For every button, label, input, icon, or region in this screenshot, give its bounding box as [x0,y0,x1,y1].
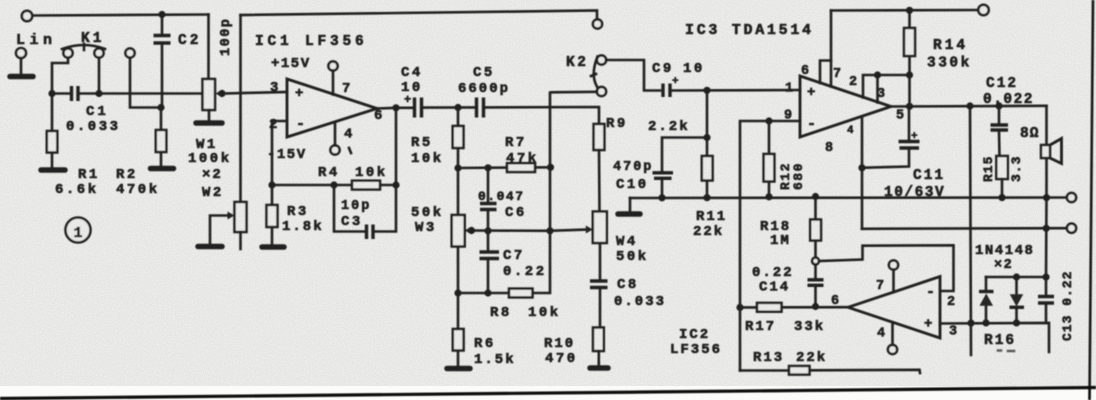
wire pin9 column [740,121,800,371]
potentiometer W4 50k [599,150,600,280]
wire K2 upper pin to C9 [606,60,660,91]
resistor R17 33k [757,303,782,312]
pin 4 supply terminal [330,145,339,154]
capacitor C13 0.22 [1038,297,1054,304]
node C1 left [48,90,55,97]
wire feedback vertical from output [395,108,398,186]
wire IC1 output [377,107,412,110]
wire W1 wiper to IC1 pin3 [222,92,287,94]
resistor R6 1.5k [457,296,460,365]
scan border right [1090,0,1094,400]
resistor R14 330k [908,10,911,106]
wire feedback loop to IC2 inverting input [819,245,954,291]
capacitor C11 10/63V [862,106,909,168]
wire K1 pin2 down [98,58,101,94]
wire R5/R7 row [458,166,551,169]
capacitor C8 0.033 [590,281,608,288]
capacitor C10 470p [662,138,707,198]
wire wiper row W3 to W4 [472,230,589,231]
resistor R5 10k [454,104,461,111]
capacitor C7 0.22 [487,231,490,293]
wire output sense column [970,106,971,355]
resistor R9 2.2k [594,124,605,150]
wire IC3 output row [891,105,1047,108]
pin 4 terminal IC2 [888,345,897,354]
terminal output 1 [1067,193,1076,202]
wire top rail from Lin to W1 [33,15,209,16]
wire IC3 pins 2-3 bootstrap loop [863,75,878,103]
wire IC1 pin2 to feedback node [272,121,287,185]
resistor R18 1M [812,193,819,200]
potentiometer W1 100k [207,15,210,80]
resistor R8 10k [509,289,533,298]
wire K1 pin3 down to R2 node [130,58,161,108]
scan border bottom [0,388,1096,399]
resistor R1 6.6k [51,97,54,167]
resistor R12 680 [768,121,771,197]
wire C5 to R9 [486,107,600,124]
resistor R2 470k [160,108,163,166]
wire K1 pin1 to C1 left node [52,58,68,94]
terminal supply top right [978,5,988,15]
potentiometer W3 50k [457,171,460,293]
wire C9 to IC3 pin1 [673,89,801,92]
resistor R15 3.3 [996,156,1008,179]
capacitor C6 0.047 [487,168,490,231]
ground [10,74,33,80]
wire IC3 pins 6-7 supply loop [820,61,831,87]
wire R8 row [458,93,550,294]
node C1 right [95,90,102,97]
resistor R7 47k [507,163,535,172]
wire IC2 non-inverting input row [940,323,1049,352]
wire pin8 row to output terminal 2 [862,227,1067,230]
resistor R13 22k [789,366,810,375]
pin 7 supply terminal [328,61,337,70]
ground bus [630,196,1067,199]
wire IC3 pin8 column [861,117,864,229]
figure number 1 [66,218,91,243]
resistor R10 470 [593,328,604,352]
resistor R11 22k [706,90,709,197]
capacitor C1 [72,86,79,101]
terminal Lin input [22,11,32,21]
pin 7 terminal IC2 [889,260,898,269]
wire K2 lower pin to tone output column [552,91,597,94]
capacitor C14 0.22 [814,265,817,307]
node test point [812,258,819,265]
capacitor C3 10p [334,188,396,232]
terminal output 2 [1067,224,1076,233]
resistor R3 1.8k [268,181,275,188]
diode D1 [985,277,988,323]
wire ground post [20,59,23,74]
wire top right rail [831,9,978,12]
wire C4 to C5 [424,106,476,109]
diode D2 [1015,277,1018,323]
wire supply riser to top rail [830,11,833,61]
capacitor C2 100p [158,11,165,18]
wire R13 row [740,370,920,373]
wire main input line [52,92,203,95]
terminal ground post [16,48,26,58]
wire W2 top to K2 [241,11,598,20]
wire diode block column [1045,198,1048,323]
wire R17 row to IC2 output [740,306,848,309]
